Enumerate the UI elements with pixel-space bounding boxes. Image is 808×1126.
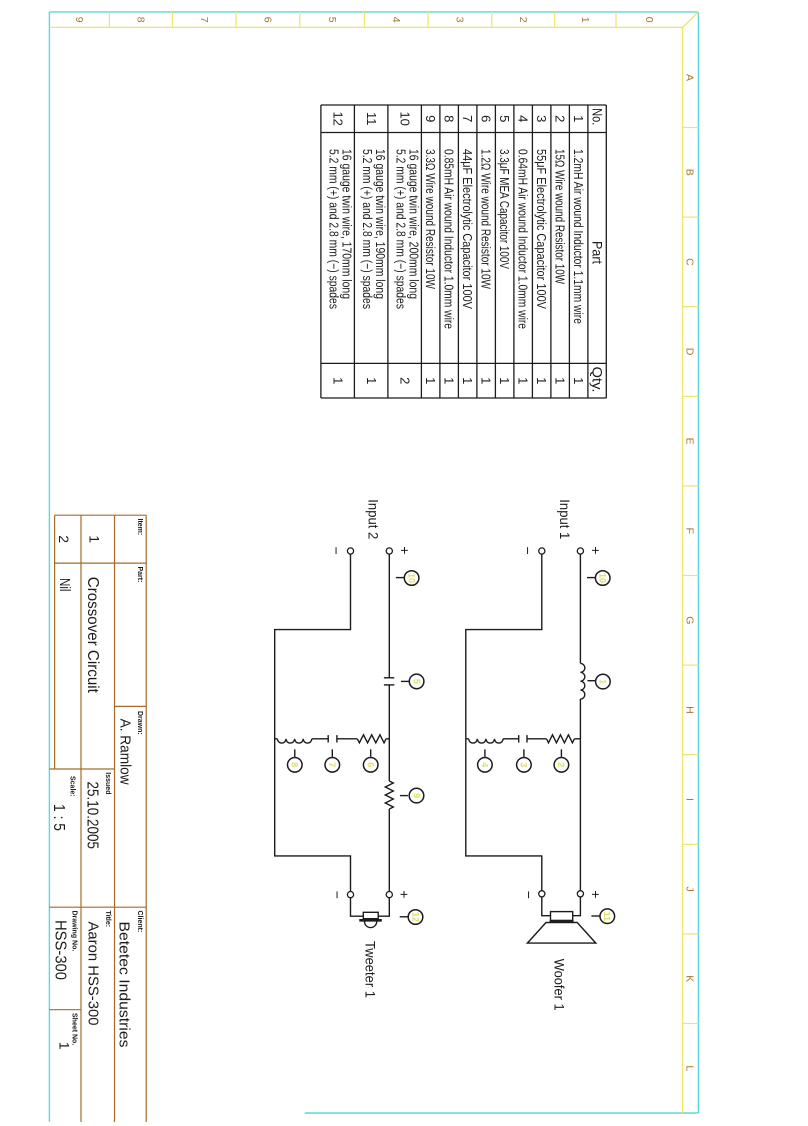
balloon 10 (input2 wire): [396, 577, 404, 579]
inductor 1 (1.2mH) on + wire: [580, 663, 584, 699]
svg-text:−: −: [330, 891, 346, 899]
grid numbers 0-9: [73, 17, 655, 23]
balloon 7 (capacitor 7): [331, 749, 333, 757]
svg-text:+: +: [397, 546, 413, 554]
svg-text:5.2 mm (+) and 2.8 mm (−) spad: 5.2 mm (+) and 2.8 mm (−) spades: [394, 149, 409, 309]
balloon 6 (resistor 6): [370, 749, 372, 757]
svg-text:D: D: [684, 348, 696, 356]
svg-text:1: 1: [460, 377, 475, 384]
wire: capacitor 5 to resistor 9: [388, 685, 390, 781]
svg-text:4: 4: [390, 17, 402, 23]
svg-text:1: 1: [553, 377, 568, 384]
capacitor 3 (55uF) plates: [526, 735, 528, 742]
capacitor 5 (3.3uF) plates: [384, 677, 394, 679]
svg-text:44μF Electrolytic Capacitor 10: 44μF Electrolytic Capacitor 100V: [460, 149, 475, 309]
svg-text:2: 2: [56, 535, 72, 543]
svg-text:5.2 mm (+) and 2.8 mm (−) spad: 5.2 mm (+) and 2.8 mm (−) spades: [327, 149, 342, 309]
svg-text:9: 9: [423, 115, 438, 122]
svg-text:1.2mH Air wound Inductor 1.1mm: 1.2mH Air wound Inductor 1.1mm wire: [571, 149, 586, 324]
balloon 10 (input1 wire): [587, 577, 595, 579]
tweeter terminal -: [347, 892, 353, 898]
ruler ticks: letters (top strip): [683, 128, 699, 1024]
balloon 12 (tweeter lead): [400, 916, 408, 918]
svg-text:−: −: [521, 891, 537, 899]
svg-text:No.: No.: [589, 108, 605, 125]
wire: inductor 8 to bottom wire: [275, 738, 278, 740]
svg-text:55μF Electrolytic Capacitor 10: 55μF Electrolytic Capacitor 100V: [534, 149, 549, 309]
branch wire (circuit 2) top segment: [386, 738, 389, 740]
svg-text:2: 2: [398, 377, 413, 384]
svg-text:Part: Part: [589, 241, 605, 264]
title block: Item field: [56, 519, 143, 544]
inductor 4 (0.64mH) on branch: [469, 739, 503, 743]
input1 terminal +: [577, 548, 583, 554]
svg-text:11: 11: [364, 112, 379, 126]
svg-text:5: 5: [497, 115, 512, 122]
ruler strip inner lines (yellow): [49, 12, 698, 1113]
svg-text:0.64mH Air wound Inductor 1.0m: 0.64mH Air wound Inductor 1.0mm wire: [516, 149, 531, 329]
svg-text:3.3μF MEA Capacitor 100V: 3.3μF MEA Capacitor 100V: [497, 149, 512, 269]
svg-text:1: 1: [579, 17, 591, 23]
wire: inductor 4 to bottom wire: [466, 738, 469, 740]
balloon 11 (woofer lead): [591, 915, 599, 917]
svg-text:+: +: [588, 546, 604, 554]
wire: woofer - to driver: [542, 897, 551, 916]
balloon 2 (resistor 2): [560, 749, 562, 757]
title block: Issued field: [84, 772, 111, 849]
svg-text:1.2Ω Wire wound Resistor 10W: 1.2Ω Wire wound Resistor 10W: [479, 149, 494, 290]
svg-text:1: 1: [86, 535, 102, 543]
svg-text:1 : 5: 1 : 5: [50, 804, 67, 831]
balloon 9 (resistor 9): [400, 795, 408, 797]
wire: resistor 6 to capacitor 7: [337, 738, 357, 740]
return wire circuit 1 (input - to woofer -): [466, 554, 542, 891]
inductor 8 (0.85mH) on branch: [277, 739, 311, 743]
svg-text:5: 5: [411, 679, 421, 684]
svg-text:25.10.2005: 25.10.2005: [84, 782, 101, 850]
wire: capacitor 3 to inductor 4: [503, 738, 519, 740]
title block: Title field: [85, 911, 111, 1026]
svg-text:Scale:: Scale:: [69, 776, 76, 797]
svg-text:Sheet No.: Sheet No.: [70, 1013, 77, 1045]
svg-text:1: 1: [56, 1042, 72, 1050]
svg-text:12: 12: [331, 111, 346, 125]
svg-text:8: 8: [135, 17, 147, 23]
svg-text:I: I: [684, 798, 696, 801]
svg-text:E: E: [684, 438, 696, 445]
svg-text:6: 6: [479, 115, 494, 122]
svg-text:3: 3: [534, 115, 549, 122]
input2 terminal +: [386, 548, 392, 554]
title block: Sheet No. field: [56, 1013, 77, 1050]
svg-text:Nil: Nil: [56, 578, 72, 592]
svg-text:1: 1: [364, 377, 379, 384]
svg-text:0.85mH Air wound Inductor 1.0m: 0.85mH Air wound Inductor 1.0mm wire: [442, 149, 457, 329]
svg-text:HSS-300: HSS-300: [51, 920, 68, 980]
parts table rows 1-9: [423, 115, 586, 384]
svg-text:1: 1: [442, 377, 457, 384]
resistor 2 (15 ohm) on branch: [547, 735, 575, 743]
wire: woofer + to driver: [573, 897, 581, 916]
svg-text:Issued: Issued: [104, 772, 111, 794]
grid letters A-L: [684, 74, 696, 1071]
svg-text:−: −: [520, 547, 536, 555]
svg-text:12: 12: [410, 912, 420, 922]
woofer driver rect: [551, 912, 573, 921]
svg-text:0: 0: [643, 17, 655, 23]
title block: Scale field: [50, 776, 76, 831]
wire: inductor 1 to woofer +: [579, 699, 581, 891]
svg-text:1: 1: [534, 377, 549, 384]
wire: tweeter - to driver: [351, 898, 364, 917]
title block: Part field: [56, 567, 143, 694]
svg-text:1: 1: [571, 377, 586, 384]
wire: capacitor 7 to inductor 8: [312, 738, 328, 740]
svg-text:Input 1: Input 1: [557, 499, 573, 539]
woofer terminal +: [577, 891, 583, 897]
svg-text:H: H: [684, 706, 696, 714]
wire: tweeter + to driver: [378, 898, 389, 917]
svg-text:9: 9: [411, 793, 421, 798]
svg-text:Input 2: Input 2: [365, 499, 381, 539]
return wire circuit 2 (input - to tweeter -): [275, 554, 351, 891]
svg-text:4: 4: [516, 115, 531, 122]
input1 terminal -: [539, 548, 545, 554]
svg-text:3: 3: [454, 17, 466, 23]
branch wire (circuit 1) top segment: [574, 738, 580, 740]
svg-text:G: G: [684, 616, 696, 624]
wire: resistor 2 to capacitor 3: [527, 738, 547, 740]
tweeter terminal +: [386, 892, 392, 898]
parts table rows 10-12 (two-line): [327, 111, 422, 384]
svg-text:Qty.: Qty.: [589, 367, 605, 393]
resistor 9 (3.3 ohm) on + wire: [385, 781, 393, 809]
svg-text:2: 2: [553, 115, 568, 122]
svg-text:Tweeter 1: Tweeter 1: [362, 941, 378, 998]
svg-text:10: 10: [398, 111, 413, 125]
svg-text:2: 2: [556, 762, 566, 767]
tweeter dome: [365, 922, 377, 928]
svg-text:K: K: [684, 975, 696, 982]
svg-text:1: 1: [516, 377, 531, 384]
resistor 6 (1.2 ohm) on branch: [357, 735, 386, 743]
svg-text:L: L: [684, 1065, 696, 1071]
svg-text:1: 1: [571, 115, 586, 122]
wire: input2 + to capacitor 5: [388, 554, 390, 678]
svg-text:B: B: [684, 169, 696, 176]
svg-text:+: +: [588, 890, 604, 898]
svg-text:7: 7: [327, 762, 337, 767]
svg-text:Drawing No.: Drawing No.: [70, 911, 77, 952]
svg-text:Part:: Part:: [136, 567, 143, 583]
svg-text:Woofer 1: Woofer 1: [552, 959, 568, 1011]
parts table grid: [321, 105, 606, 398]
woofer flange: [550, 920, 574, 922]
svg-text:3.3Ω Wire wound Resistor 10W: 3.3Ω Wire wound Resistor 10W: [423, 149, 438, 290]
svg-text:F: F: [684, 527, 696, 533]
svg-text:10: 10: [406, 573, 416, 583]
title block: Client field: [116, 911, 143, 1048]
wire: input1 + to inductor 1: [579, 554, 581, 663]
parts table header: [589, 108, 605, 392]
svg-text:2: 2: [517, 17, 529, 23]
svg-text:5: 5: [326, 17, 338, 23]
balloon 4 (inductor 4): [484, 749, 486, 757]
svg-text:1: 1: [331, 377, 346, 384]
svg-text:4: 4: [480, 762, 490, 767]
title block grid (brown): [49, 515, 146, 1122]
svg-text:Title:: Title:: [104, 911, 111, 928]
svg-text:10: 10: [598, 573, 608, 583]
svg-text:7: 7: [198, 17, 210, 23]
tweeter flange: [359, 919, 382, 922]
svg-text:Betetec Industries: Betetec Industries: [116, 922, 133, 1048]
sheet outer border (cyan): [49, 12, 698, 1122]
wire: resistor 9 to tweeter +: [388, 809, 390, 892]
svg-text:1: 1: [497, 377, 512, 384]
svg-text:3: 3: [519, 762, 529, 767]
svg-text:5.2 mm (+) and 2.8 mm (−) spad: 5.2 mm (+) and 2.8 mm (−) spades: [360, 149, 375, 309]
svg-text:Client:: Client:: [136, 911, 143, 933]
svg-text:11: 11: [602, 911, 612, 921]
balloon 8 (inductor 8): [294, 749, 296, 757]
svg-text:8: 8: [290, 762, 300, 767]
svg-text:−: −: [329, 547, 345, 555]
balloon 1 (inductor 1): [588, 680, 596, 682]
woofer cone: [527, 923, 595, 944]
svg-text:8: 8: [442, 115, 457, 122]
svg-text:A. Ramlow: A. Ramlow: [117, 719, 134, 785]
svg-text:A: A: [684, 74, 696, 81]
svg-text:C: C: [684, 258, 696, 266]
svg-text:Item:: Item:: [136, 519, 143, 536]
woofer terminal -: [539, 891, 545, 897]
title block: Drawing No. field: [51, 911, 77, 981]
svg-text:6: 6: [366, 762, 376, 767]
balloon 5 (capacitor 5): [401, 680, 409, 682]
svg-text:+: +: [397, 890, 413, 898]
svg-text:7: 7: [460, 115, 475, 122]
svg-text:1: 1: [598, 679, 608, 684]
svg-text:1: 1: [423, 377, 438, 384]
svg-text:Drawn:: Drawn:: [136, 711, 143, 735]
svg-text:9: 9: [73, 17, 85, 23]
svg-text:Crossover Circuit: Crossover Circuit: [84, 577, 101, 694]
svg-text:6: 6: [262, 17, 274, 23]
input2 terminal -: [347, 548, 353, 554]
ruler ticks: numbers (left strip): [109, 12, 616, 28]
svg-text:15Ω Wire wound Resistor 10W: 15Ω Wire wound Resistor 10W: [553, 149, 568, 285]
svg-text:1: 1: [479, 377, 494, 384]
svg-text:J: J: [684, 886, 696, 891]
tweeter driver rect: [363, 912, 378, 918]
capacitor 7 (44uF) plates: [336, 735, 338, 742]
title block: Drawn field: [117, 711, 143, 785]
balloon 3 (capacitor 3): [523, 749, 525, 757]
svg-text:Aaron HSS-300: Aaron HSS-300: [85, 922, 101, 1026]
